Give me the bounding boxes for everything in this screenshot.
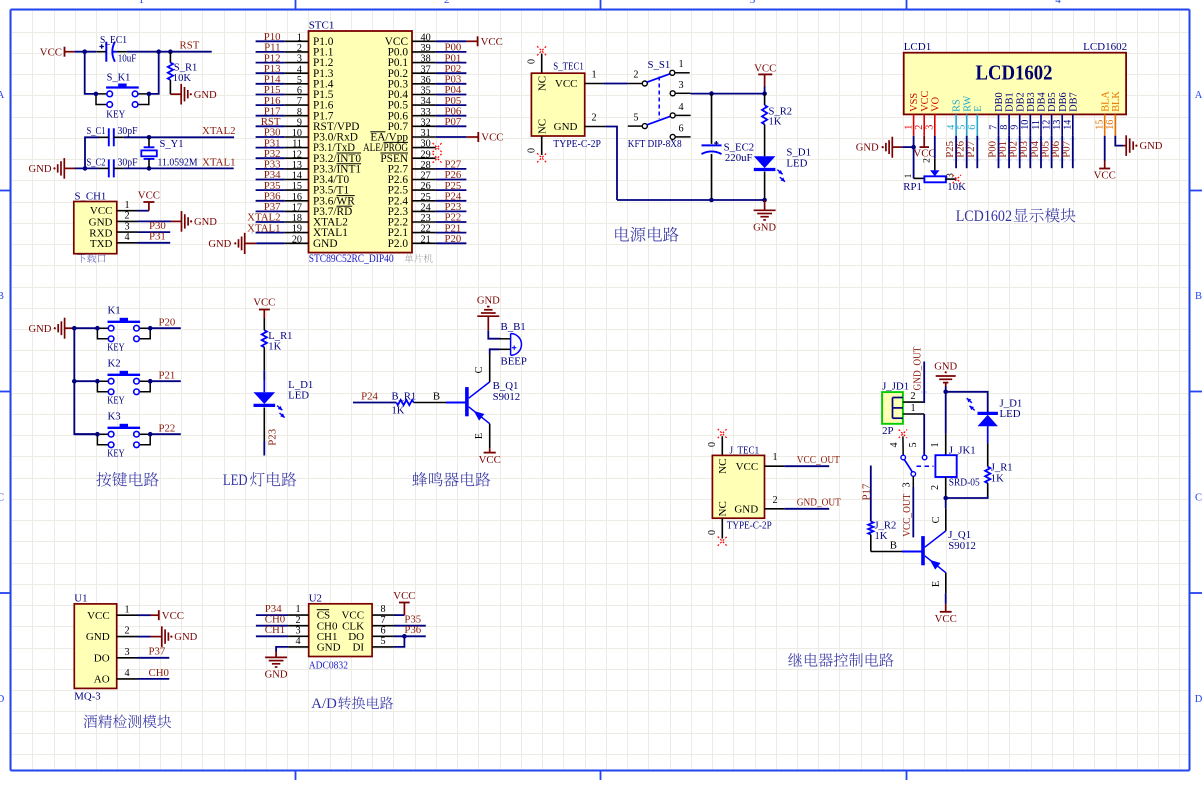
svg-text:C: C	[474, 366, 485, 373]
wire VCC to S_EC1	[74, 51, 96, 53]
svg-text:32: 32	[421, 117, 431, 128]
pin 16 LCD1 (BLK)	[1105, 91, 1122, 136]
wire net P02 (LCD pin 9)	[1008, 136, 1020, 168]
relay J_JK1 SRD-05	[930, 434, 980, 498]
svg-text:RW: RW	[962, 96, 973, 112]
switch S_S1 KFT DIP-8X8	[628, 59, 691, 150]
svg-text:GND: GND	[753, 222, 776, 233]
svg-text:B: B	[890, 539, 897, 551]
svg-text:34: 34	[421, 96, 431, 107]
pin 9 LCD1 (DB2)	[1010, 92, 1027, 135]
relay contact (pins 4/5/3)	[889, 430, 933, 477]
svg-text:NC: NC	[537, 119, 549, 134]
wire J_R1 bottom to relay pin2	[946, 496, 988, 499]
net label XTAL1	[202, 156, 236, 168]
svg-text:VCC: VCC	[253, 297, 275, 309]
pin 8 LCD1 (DB1)	[999, 92, 1016, 135]
junction S_C2 left	[83, 166, 88, 171]
led L_D1 LED	[254, 379, 314, 441]
svg-text:2P: 2P	[882, 425, 893, 437]
svg-text:12: 12	[292, 149, 302, 160]
svg-text:18: 18	[292, 213, 302, 224]
ground GND (reset)	[170, 84, 217, 105]
pin 4 U1	[117, 668, 138, 679]
pin 11 STC1 (P3.1/TxD)	[285, 139, 355, 155]
no-connect marker bottom (S_TEC1)	[527, 136, 547, 162]
caption 酒精检测模块	[83, 715, 171, 729]
wire net P16 (left row 7)	[256, 95, 285, 107]
svg-text:NC: NC	[537, 76, 549, 91]
svg-text:B: B	[0, 291, 4, 302]
svg-text:5: 5	[957, 125, 968, 130]
svg-text:K1: K1	[108, 305, 121, 317]
pin 1 J_JD1	[903, 403, 924, 414]
push button K1 KEY	[95, 305, 152, 354]
pin 13 LCD1 (DB6)	[1052, 92, 1069, 135]
svg-text:S9012: S9012	[493, 391, 521, 403]
svg-text:DO: DO	[94, 652, 110, 664]
wire + ground GND (LCD BLK)	[1115, 135, 1163, 156]
svg-text:VCC: VCC	[555, 78, 578, 90]
pin 14 STC1 (P3.4/T0)	[285, 171, 350, 187]
power port VCC (U1)	[138, 610, 185, 622]
svg-text:NC: NC	[717, 501, 729, 516]
resistor J_R1 1K	[985, 463, 1012, 496]
pin 26 STC1 (P2.5)	[388, 181, 436, 197]
svg-text:DB1: DB1	[1005, 92, 1016, 111]
pin 19 STC1 (XTAL1)	[285, 224, 348, 240]
svg-text:LCD1602: LCD1602	[956, 208, 1012, 225]
connector S_CH1	[74, 191, 117, 254]
svg-text:STC1: STC1	[309, 20, 335, 32]
svg-text:K3: K3	[108, 411, 121, 423]
svg-text:GND: GND	[28, 324, 51, 335]
pin 2 S_TEC1	[585, 113, 606, 127]
caption LED灯电路	[223, 472, 296, 489]
wire net P36 (left row 16)	[256, 190, 285, 202]
resistor J_R2 1K	[868, 521, 896, 552]
pin 29 STC1 (PSEN)	[380, 149, 435, 165]
pin 20 STC1 (GND)	[285, 234, 338, 250]
wire net P03 (LCD pin 10)	[1018, 136, 1030, 168]
adc U2 ADC0832	[309, 592, 372, 671]
led S_D1 LED	[754, 147, 811, 200]
svg-text:16: 16	[292, 192, 302, 203]
svg-text:5: 5	[297, 75, 302, 86]
pin 1 STC1 (P1.0)	[285, 32, 334, 48]
pin 23 STC1 (P2.2)	[388, 213, 436, 229]
svg-text:0: 0	[527, 148, 538, 153]
wire GND to junction	[945, 387, 947, 392]
wire net P25 (right row pin 26)	[436, 180, 467, 192]
svg-text:10: 10	[1020, 120, 1031, 130]
svg-text:LED: LED	[1000, 408, 1021, 420]
pin 4 U2	[288, 636, 309, 647]
pin 3 STC1 (P1.2)	[285, 54, 334, 69]
wire relay node down to collector	[945, 498, 947, 508]
svg-text:S_C1: S_C1	[87, 126, 106, 137]
svg-text:40: 40	[421, 32, 431, 43]
wire net P17	[861, 466, 873, 522]
svg-text:VSS: VSS	[909, 93, 920, 112]
svg-text:P21: P21	[159, 369, 176, 381]
svg-text:2: 2	[591, 113, 596, 124]
pin 1 LCD1 (VSS)	[903, 93, 920, 136]
pin 2 J_JD1	[903, 391, 923, 402]
svg-text:VCC: VCC	[920, 90, 931, 111]
svg-text:1: 1	[910, 403, 915, 414]
wire net P24	[353, 390, 396, 402]
snap marks layer	[251, 40, 1075, 509]
wire net P21	[150, 369, 181, 381]
wire net P00 (right row pin 39)	[436, 42, 467, 54]
wire net P32 (left row 12)	[256, 148, 285, 160]
no-connect pin 29	[433, 154, 442, 163]
svg-text:15: 15	[1095, 120, 1106, 130]
svg-text:GND_OUT: GND_OUT	[912, 346, 924, 390]
pin 7 LCD1 (DB0)	[988, 92, 1005, 135]
pin 25 STC1 (P2.4)	[388, 192, 436, 208]
svg-text:14: 14	[292, 171, 302, 182]
wire net P14 (left row 5)	[256, 74, 285, 86]
svg-text:P07: P07	[1061, 140, 1073, 157]
svg-text:3: 3	[124, 647, 129, 658]
svg-text:VCC: VCC	[481, 132, 503, 144]
svg-text:10: 10	[292, 128, 302, 139]
pin 13 STC1 (P3.3/INT1)	[285, 160, 361, 176]
wire switch pin3 to VCC rail	[691, 93, 765, 95]
svg-text:VCC: VCC	[1094, 170, 1116, 182]
pin 10 LCD1 (DB3)	[1020, 92, 1037, 135]
wire LCD VO to RP1 wiper	[923, 136, 935, 171]
caption 继电器控制电路	[788, 653, 893, 667]
svg-text:DB6: DB6	[1058, 92, 1069, 111]
pin 11 LCD1 (DB4)	[1031, 92, 1048, 135]
wire net P34	[256, 603, 288, 615]
svg-text:20: 20	[292, 234, 302, 245]
svg-text:LCD1: LCD1	[904, 41, 932, 53]
pin 3 U2	[288, 625, 309, 636]
pin 39 STC1 (P0.0)	[388, 43, 436, 59]
svg-text:31: 31	[421, 128, 431, 139]
svg-text:J_TEC1: J_TEC1	[730, 444, 760, 456]
wire junction up to S_C1	[85, 137, 99, 168]
svg-text:S_TEC1: S_TEC1	[553, 60, 584, 72]
svg-text:TYPE-C-2P: TYPE-C-2P	[553, 138, 601, 150]
svg-text:LED: LED	[223, 472, 248, 489]
svg-text:10K: 10K	[947, 181, 966, 193]
svg-text:3: 3	[750, 0, 756, 6]
ground GND (pin 20)	[208, 233, 284, 254]
junction S_R2 top	[762, 91, 767, 96]
svg-text:P37: P37	[149, 646, 166, 658]
power port VCC (reset)	[40, 46, 74, 58]
svg-text:33: 33	[421, 107, 431, 118]
svg-text:1: 1	[903, 125, 914, 130]
svg-text:11: 11	[292, 139, 302, 150]
svg-text:0: 0	[707, 442, 718, 447]
svg-text:3: 3	[678, 80, 683, 91]
no-connect RP1 pin3	[953, 175, 961, 183]
pin 5 STC1 (P1.4)	[285, 75, 334, 91]
crystal S_Y1 11.0592M	[141, 137, 198, 168]
pin 1 J_TEC1	[765, 452, 785, 466]
svg-text:39: 39	[421, 43, 431, 54]
wire net XTAL1 (left row 19)	[247, 222, 285, 234]
svg-text:A: A	[0, 90, 5, 101]
wire net CH1 (U2)	[256, 624, 288, 636]
svg-text:RP1: RP1	[903, 181, 922, 193]
pin 40 STC1 (VCC)	[385, 32, 436, 48]
caption 下载口	[77, 254, 106, 263]
svg-text:6: 6	[297, 86, 302, 97]
pin 16 STC1 (P3.6/WR)	[285, 192, 356, 208]
svg-text:15: 15	[292, 181, 302, 192]
svg-text:P20: P20	[445, 233, 462, 245]
svg-text:0: 0	[527, 59, 538, 64]
svg-text:1: 1	[678, 59, 683, 70]
svg-text:S_EC1: S_EC1	[100, 35, 127, 46]
svg-text:DB7: DB7	[1068, 92, 1079, 111]
no-connect marker top (J_TEC1)	[707, 429, 727, 456]
wire net P30 (left row 10)	[256, 127, 285, 139]
svg-text:GND: GND	[1140, 141, 1163, 152]
pin 2 S_CH1	[117, 211, 138, 222]
pin 21 STC1 (P2.0)	[388, 234, 436, 250]
wire + ground GND (U1)	[138, 626, 198, 647]
wire net P22	[150, 422, 181, 434]
wire net P06 (LCD pin 13)	[1050, 136, 1062, 168]
wire net P37	[138, 646, 170, 658]
svg-text:2: 2	[444, 0, 450, 6]
wire net P34 (left row 14)	[256, 169, 285, 181]
svg-text:A/D: A/D	[311, 696, 337, 712]
caption A/D转换电路	[311, 696, 393, 712]
wire net P01 (LCD pin 8)	[997, 136, 1009, 168]
junction crystal top	[147, 135, 152, 140]
mcu STC1 body	[309, 20, 413, 265]
pin 6 STC1 (P1.5)	[285, 86, 334, 102]
push button K2 KEY	[95, 358, 152, 407]
junction S_D1 bottom	[762, 198, 767, 203]
svg-text:VCC_OUT: VCC_OUT	[901, 493, 913, 536]
svg-text:J_R2: J_R2	[875, 521, 897, 532]
svg-text:5: 5	[633, 113, 638, 124]
svg-text:4: 4	[889, 442, 900, 447]
wire net P05 (right row pin 34)	[436, 95, 467, 107]
svg-text:1: 1	[297, 32, 302, 43]
svg-text:VCC: VCC	[481, 36, 503, 48]
svg-text:P23: P23	[266, 429, 278, 446]
pin 7 U2	[372, 615, 394, 626]
svg-text:1: 1	[124, 604, 129, 615]
svg-text:16: 16	[1105, 120, 1116, 130]
pin 3 U1	[117, 647, 138, 658]
svg-text:S_R1: S_R1	[174, 62, 198, 73]
svg-text:VO: VO	[930, 96, 941, 111]
svg-text:S_Y1: S_Y1	[160, 138, 184, 150]
svg-text:13: 13	[292, 160, 302, 171]
connector S_TEC1 TYPE-C-2P	[531, 60, 600, 150]
pin 9 STC1 (RST/VPD)	[285, 117, 360, 132]
wire net RST (left row 9)	[256, 116, 285, 128]
svg-text:19: 19	[292, 224, 302, 235]
pin 4 STC1 (P1.3)	[285, 64, 334, 80]
svg-text:3: 3	[297, 54, 302, 65]
no-connect pin 30	[433, 143, 442, 152]
svg-text:1: 1	[124, 200, 129, 211]
svg-text:2: 2	[295, 615, 300, 626]
pin 38 STC1 (P0.1)	[388, 54, 436, 69]
svg-text:B: B	[433, 390, 440, 402]
svg-text:E: E	[474, 433, 485, 439]
pin 6 LCD1 (E)	[967, 106, 984, 136]
svg-text:BLK: BLK	[1111, 91, 1122, 112]
potentiometer RP1 10K	[903, 170, 966, 193]
svg-text:B_B1: B_B1	[501, 321, 526, 333]
svg-text:VCC: VCC	[479, 454, 501, 466]
pin 14 LCD1 (DB7)	[1063, 92, 1080, 135]
resistor S_R2 1K	[762, 94, 792, 157]
pin 31 STC1 (EA/Vpp)	[370, 128, 435, 144]
svg-text:2: 2	[772, 495, 777, 506]
svg-text:3: 3	[925, 125, 936, 130]
wire L_R1 to L_D1	[263, 370, 265, 381]
svg-text:BLA: BLA	[1100, 91, 1111, 112]
svg-text:LED: LED	[786, 157, 807, 169]
junction P36/DI	[402, 634, 407, 639]
svg-text:2: 2	[297, 43, 302, 54]
power port VCC (LCD BLA)	[1094, 136, 1116, 182]
svg-text:DB5: DB5	[1047, 92, 1058, 111]
wire net P24 (right row pin 25)	[436, 190, 467, 202]
svg-text:1: 1	[138, 0, 144, 6]
caption 电源电路	[615, 227, 678, 242]
pin 22 STC1 (P2.1)	[388, 224, 436, 240]
svg-text:1K: 1K	[991, 473, 1004, 484]
pin 3 S_CH1	[117, 221, 138, 232]
pin 17 STC1 (P3.7/RD)	[285, 203, 353, 219]
wire net P11 (left row 2)	[256, 42, 285, 54]
svg-text:DI: DI	[352, 642, 364, 654]
ground GND (keys)	[28, 318, 74, 339]
svg-text:VCC: VCC	[393, 590, 415, 602]
wire net VCC_OUT (vertical, contact 3)	[901, 476, 913, 537]
svg-text:13: 13	[1052, 120, 1063, 130]
wire net P25 (LCD pin 4)	[944, 136, 956, 168]
svg-text:4: 4	[124, 668, 129, 679]
wire net P07 (right row pin 32)	[436, 116, 467, 128]
wire net P05 (LCD pin 12)	[1039, 136, 1051, 168]
svg-text:36: 36	[421, 75, 431, 86]
wire J_JD1 pin1 to contact 5	[923, 414, 925, 455]
svg-text:VCC: VCC	[90, 205, 113, 217]
wire net P26 (LCD pin 5)	[955, 136, 967, 168]
wire net P20	[150, 316, 181, 328]
wire net P27 (LCD pin 6)	[965, 136, 977, 168]
caption LCD1602显示模块	[956, 208, 1076, 225]
svg-text:28: 28	[421, 160, 431, 171]
svg-text:2: 2	[923, 158, 933, 163]
svg-text:8: 8	[380, 604, 385, 615]
svg-text:KEY: KEY	[107, 341, 125, 353]
caption 按键电路	[96, 472, 158, 487]
wire net P00 (LCD pin 7)	[986, 136, 998, 168]
svg-text:E: E	[931, 581, 942, 587]
svg-text:CH0: CH0	[149, 667, 169, 679]
svg-text:C: C	[0, 493, 4, 504]
svg-text:VCC: VCC	[87, 610, 110, 622]
wire net P17 (left row 8)	[256, 105, 285, 117]
svg-text:5: 5	[908, 442, 919, 447]
wire keys left rail	[74, 328, 97, 434]
wire DI to P36 node	[394, 636, 405, 647]
power port VCC (pin 31)	[436, 132, 504, 144]
wire net P36	[394, 624, 426, 636]
svg-text:11.0592M: 11.0592M	[158, 156, 198, 168]
transistor J_Q1 S9012	[923, 508, 976, 593]
svg-text:L_R1: L_R1	[268, 331, 292, 342]
svg-text:2: 2	[633, 70, 638, 81]
svg-text:220uF: 220uF	[725, 152, 753, 164]
pin 35 STC1 (P0.4)	[388, 86, 436, 102]
svg-text:J_JD1: J_JD1	[882, 380, 909, 392]
svg-text:K2: K2	[108, 358, 121, 370]
svg-text:4: 4	[946, 125, 957, 130]
power port VCC (pin 40)	[436, 36, 503, 48]
wire net P13 (left row 4)	[256, 63, 285, 75]
pin 5 LCD1 (RW)	[957, 96, 974, 136]
svg-text:2: 2	[124, 211, 129, 222]
wire net XTAL2 (left row 18)	[247, 212, 285, 224]
svg-text:8: 8	[999, 125, 1010, 130]
svg-text:A: A	[1195, 90, 1202, 101]
svg-text:GND: GND	[194, 90, 217, 101]
svg-text:LCD1602: LCD1602	[1083, 41, 1127, 53]
svg-text:VCC_OUT: VCC_OUT	[797, 454, 840, 466]
lcd LCD1 body LCD1602	[904, 41, 1127, 114]
svg-text:P07: P07	[445, 116, 462, 128]
svg-text:6: 6	[380, 625, 385, 636]
wire S_C2 to XTAL1 net	[124, 167, 234, 169]
svg-text:27: 27	[421, 171, 431, 182]
svg-text:RST: RST	[180, 40, 200, 52]
no-connect marker bottom (J_TEC1)	[707, 518, 727, 546]
junction S_EC2 top	[709, 91, 714, 96]
svg-text:GND: GND	[734, 503, 758, 515]
svg-text:RS: RS	[952, 99, 963, 112]
ground GND (crystal)	[29, 158, 75, 179]
wire S_C1 to XTAL2 net	[124, 136, 234, 138]
power port VCC (power circuit)	[754, 63, 776, 94]
wire S_K1 right up to RST node	[149, 52, 159, 94]
ground GND (power circuit)	[753, 200, 776, 233]
led J_D1 LED	[967, 398, 1023, 467]
svg-text:DB3: DB3	[1026, 92, 1037, 111]
svg-text:4: 4	[678, 102, 683, 113]
capacitor S_EC1 10uF	[96, 35, 136, 65]
svg-text:J_JK1: J_JK1	[949, 445, 976, 457]
svg-text:J_R1: J_R1	[991, 463, 1013, 474]
wire rail to K2	[74, 380, 97, 382]
svg-text:GND: GND	[265, 669, 288, 680]
ground GND (buzzer)	[477, 296, 500, 317]
svg-text:3: 3	[295, 625, 300, 636]
svg-text:GND: GND	[174, 632, 197, 643]
svg-text:S_S1: S_S1	[648, 59, 671, 71]
wire net P04 (LCD pin 11)	[1029, 136, 1041, 168]
power port VCC (LED)	[253, 297, 275, 319]
